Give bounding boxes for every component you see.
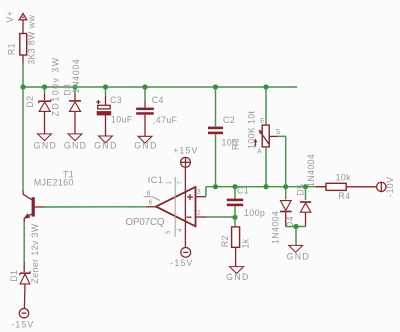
potentiometer R3 [231,87,281,156]
supply -15V under op-amp [171,248,194,269]
ground under C4 [134,136,157,150]
svg-text:R1: R1 [7,43,17,55]
svg-text:GND: GND [287,252,310,262]
svg-text:D5: D5 [295,184,305,196]
svg-text:C2: C2 [223,115,235,125]
zener diode D2 [25,56,61,133]
svg-text:IC1: IC1 [148,175,163,185]
svg-text:1: 1 [167,181,173,185]
supply +15V [173,145,198,167]
svg-text:ZD100v 3W: ZD100v 3W [51,56,61,116]
svg-text:GND: GND [94,140,117,150]
svg-text:C1: C1 [237,186,249,196]
svg-text:10k: 10k [336,172,352,182]
svg-text:1N4004: 1N4004 [271,211,281,244]
supply -10V terminal [377,177,396,197]
capacitor C1 [227,186,265,218]
svg-text:2: 2 [197,210,201,217]
resistor R1 [7,15,37,65]
polarized capacitor C3 [96,87,133,136]
svg-text:-15V: -15V [171,258,194,268]
svg-text:4: 4 [178,228,184,232]
svg-text:R4: R4 [338,191,350,201]
wire pot bottom [265,147,267,187]
wire R1 to bus [22,55,24,63]
svg-text:OP07CQ: OP07CQ [126,217,165,228]
wire pin2 net [206,216,235,218]
wire R4 to terminal [346,186,376,188]
svg-text:A: A [257,149,262,156]
svg-text:100p: 100p [244,208,265,218]
svg-text:1k: 1k [241,238,251,248]
junction dots mid bus [213,184,308,220]
svg-text:D2: D2 [25,96,35,108]
supply V+ arrow [5,11,27,23]
ground under C3 [94,136,117,150]
svg-text:1N4004: 1N4004 [306,154,316,187]
svg-text:MJE2160: MJE2160 [34,178,74,188]
svg-text:Zener 12v 3W: Zener 12v 3W [30,223,40,283]
diode D3 [63,58,81,133]
wire join to ground [295,227,297,246]
svg-text:6: 6 [149,199,153,206]
svg-text:3K3 8W ww: 3K3 8W ww [27,15,37,65]
svg-text:R3: R3 [231,138,241,150]
svg-text:3: 3 [197,189,201,196]
resistor R2 [220,217,251,266]
ground under D2 [34,134,57,151]
svg-text:100K 10t: 100K 10t [247,110,257,149]
svg-text:R2: R2 [220,235,230,247]
svg-text:C3: C3 [110,95,122,105]
wire op-amp output to base [45,206,146,208]
capacitor C2 [208,87,237,187]
wire diode join [286,226,306,228]
resistor R4 [316,172,351,201]
ground under D4 D5 [287,245,310,261]
svg-text:5: 5 [166,230,172,234]
wire emitter to D1 [23,222,25,262]
diode D5 [295,154,316,227]
diode D4 [271,187,296,244]
capacitor C4 [136,87,177,136]
svg-text:10uF: 10uF [111,114,133,124]
svg-text:,47uF: ,47uF [153,115,178,125]
svg-text:S: S [276,129,281,136]
svg-text:GND: GND [34,141,57,151]
svg-text:+15V: +15V [173,145,198,155]
op-amp IC1 [126,167,206,247]
transistor T1 [23,169,74,222]
junction diode join [293,224,298,229]
svg-text:7: 7 [178,181,184,185]
svg-text:GND: GND [226,272,249,282]
svg-text:D1: D1 [9,270,19,282]
wire op-amp pin3 riser [205,187,207,197]
svg-text:V+: V+ [5,11,15,23]
svg-text:C4: C4 [152,95,164,105]
supply -15V bottom [11,309,34,330]
svg-text:1N4004: 1N4004 [71,58,81,93]
ground under D3 [64,134,87,151]
wire top bus [23,86,297,88]
svg-text:-10V: -10V [385,177,395,197]
svg-text:GND: GND [64,141,87,151]
zener diode D1 [9,223,40,308]
svg-text:E: E [260,118,265,125]
ground under R2 [226,267,249,282]
wire collector to bus [22,87,24,192]
svg-text:-15V: -15V [11,319,34,329]
wire mid bus [206,186,326,188]
svg-text:GND: GND [134,140,157,150]
junction dots top bus [20,84,268,89]
wire V+ to R1 [22,20,24,34]
svg-text:8: 8 [147,191,151,198]
wire pot wiper [277,136,286,187]
